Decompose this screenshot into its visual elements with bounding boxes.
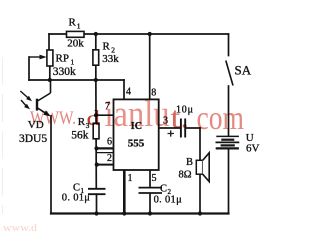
wire mid horizontal [29, 79, 124, 81]
resistor R2 [93, 50, 99, 65]
svg-text:3DU5: 3DU5 [19, 133, 47, 145]
wire SA top [228, 34, 230, 56]
wire RP1 bottom stub [49, 66, 51, 80]
wire pin2 [97, 164, 115, 166]
wire pin1 drop [123, 170, 126, 214]
capacitor C2 [139, 188, 163, 193]
svg-text:56k: 56k [71, 130, 89, 142]
svg-text:www.d: www.d [3, 222, 38, 234]
svg-text:555: 555 [128, 137, 145, 149]
wire C2 bottom [149, 194, 151, 214]
switch SA blade [226, 61, 233, 86]
wire C1 bottom [96, 194, 98, 213]
svg-text:R: R [103, 41, 111, 53]
svg-text:6V: 6V [246, 143, 260, 155]
resistor R3 [93, 123, 99, 139]
svg-text:330k: 330k [53, 66, 76, 78]
wire pin5 drop [149, 170, 151, 187]
wire battery to rail [228, 149, 230, 213]
potentiometer RP1 wiper arrow [29, 55, 47, 60]
wire pin8 drop [149, 34, 151, 99]
scan artifact: bottom gray band [36, 222, 263, 224]
svg-text:ianlu: ianlu [105, 94, 170, 135]
svg-text:C: C [160, 184, 167, 195]
svg-text:WWW.: WWW. [30, 108, 76, 129]
wire cap to speaker [186, 127, 200, 129]
svg-text:0. 01μ: 0. 01μ [62, 193, 90, 204]
svg-text:R: R [78, 116, 86, 128]
svg-text:33k: 33k [102, 53, 119, 65]
wire wiper loop [28, 57, 30, 80]
resistor R1 [67, 31, 85, 37]
scan artifact: left edge gray line [2, 57, 4, 214]
wire bottom rail [51, 212, 229, 214]
wire pin2 box line [98, 152, 116, 154]
capacitor 10u electrolytic [181, 119, 185, 138]
svg-text:8Ω: 8Ω [179, 169, 192, 180]
speaker B [196, 160, 202, 174]
svg-text:5: 5 [152, 173, 157, 184]
IC 555 body [114, 99, 159, 170]
svg-text:0. 01μ: 0. 01μ [154, 195, 182, 206]
potentiometer RP1 body [47, 50, 53, 66]
wire left drop to RP1 [48, 34, 50, 50]
svg-text:6: 6 [107, 137, 112, 148]
svg-text:20k: 20k [67, 38, 84, 50]
svg-text:2: 2 [107, 153, 112, 164]
svg-text:d: d [87, 106, 101, 130]
svg-text:SA: SA [235, 63, 252, 78]
svg-text:t.: t. [171, 99, 190, 134]
wire SA to battery [228, 86, 230, 136]
svg-text:RP: RP [56, 53, 69, 65]
light arrows [20, 91, 32, 109]
svg-text:B: B [186, 157, 193, 168]
wire pin6 [97, 147, 116, 149]
svg-text:R: R [69, 17, 77, 29]
wire pin3 [159, 127, 180, 129]
battery U [216, 136, 240, 148]
wire speaker drop [199, 128, 201, 214]
svg-text:com: com [197, 100, 245, 137]
wire R2 branch [95, 34, 97, 50]
wire pin4 drop [123, 80, 125, 99]
wire emitter column [50, 116, 52, 214]
svg-text:1: 1 [128, 173, 133, 184]
wire R2 to C1 vertical [95, 65, 98, 188]
watermark www.dianlut.com [3, 94, 244, 234]
wire pin7 [96, 114, 114, 116]
svg-text:1: 1 [77, 22, 81, 31]
wire top rail [49, 33, 229, 35]
capacitor C1 [88, 189, 106, 194]
phototransistor VD 3DU5 [37, 80, 51, 113]
